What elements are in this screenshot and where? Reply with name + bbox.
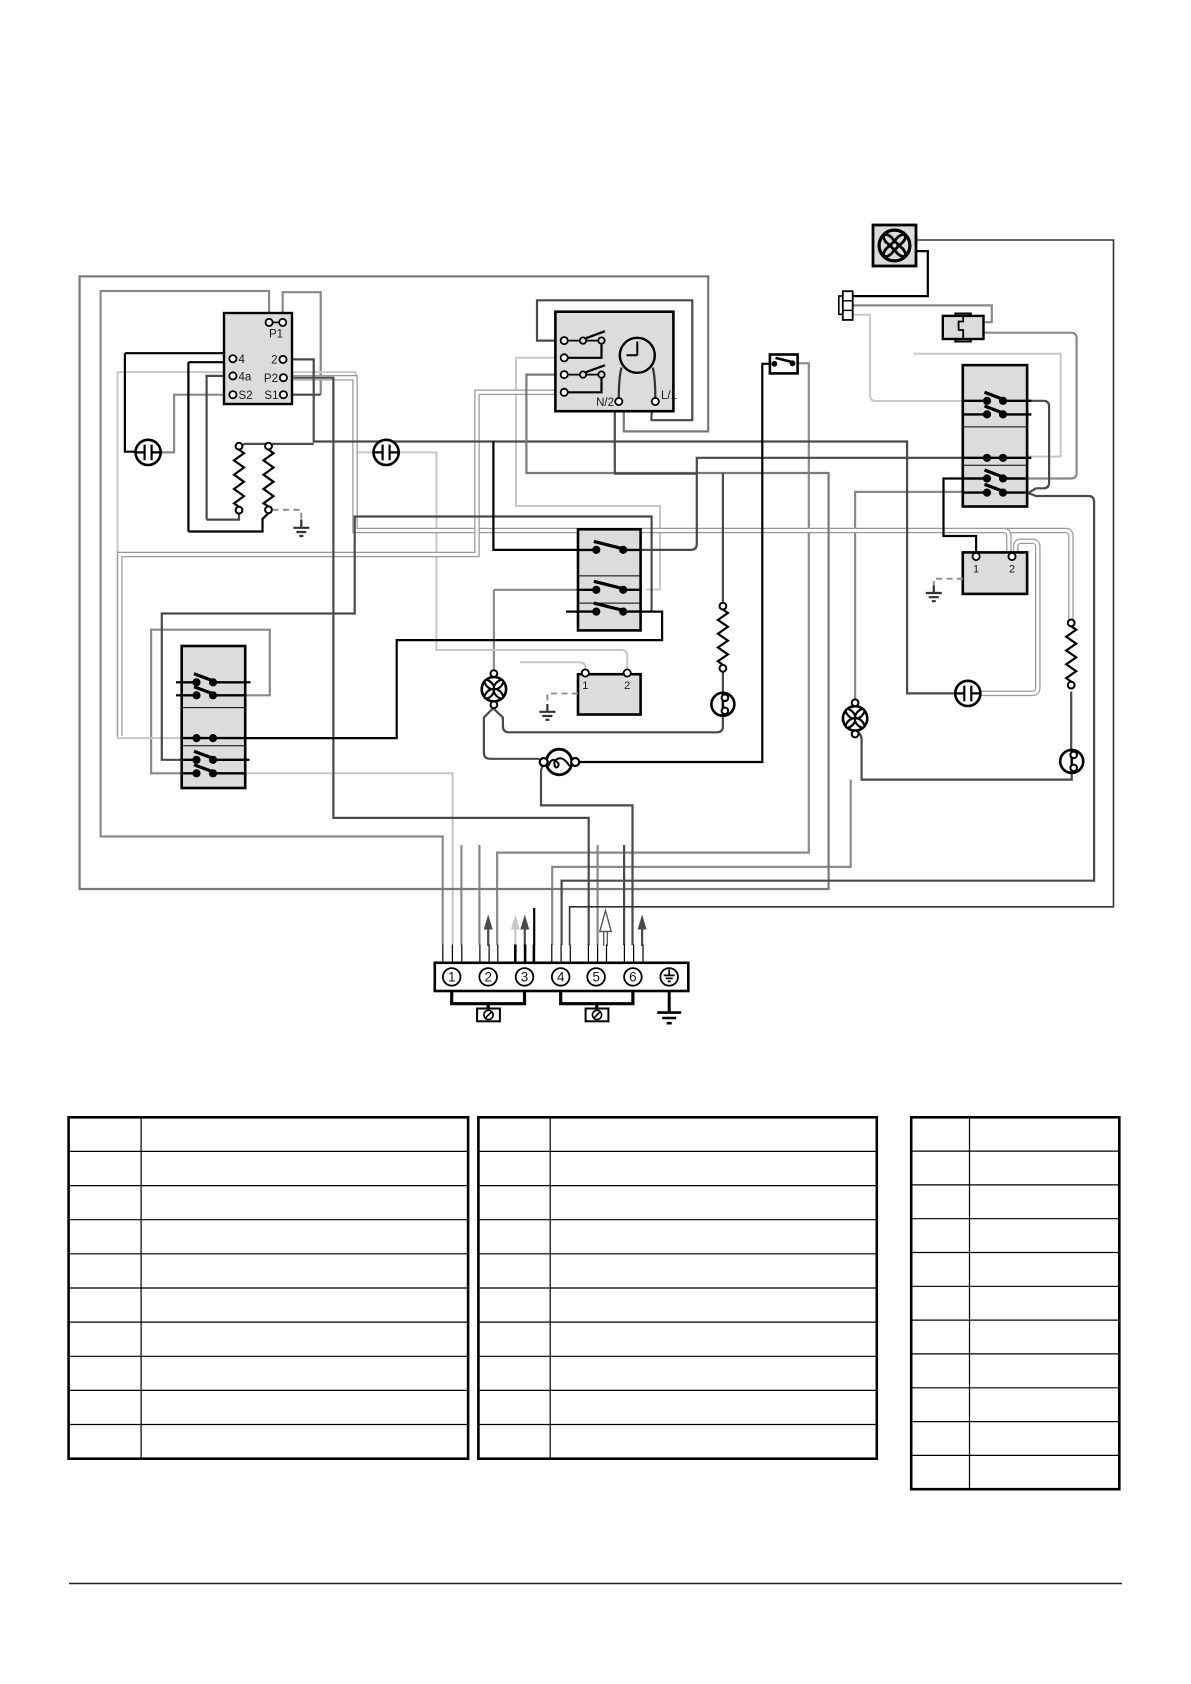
svg-text:N/2: N/2 [596, 397, 614, 409]
svg-text:1: 1 [973, 564, 979, 576]
svg-text:P2: P2 [264, 373, 278, 385]
svg-text:2: 2 [1009, 564, 1015, 576]
svg-text:S1: S1 [264, 390, 278, 402]
svg-text:2: 2 [271, 355, 277, 367]
svg-text:4a: 4a [239, 372, 252, 384]
svg-text:4: 4 [557, 970, 565, 985]
svg-text:S2: S2 [239, 390, 253, 402]
svg-text:2: 2 [484, 970, 492, 985]
svg-text:2: 2 [624, 680, 630, 692]
svg-text:4: 4 [239, 354, 246, 366]
svg-text:L/1: L/1 [661, 390, 677, 402]
svg-text:P1: P1 [269, 329, 283, 341]
svg-text:6: 6 [629, 970, 637, 985]
svg-text:1: 1 [582, 680, 588, 692]
svg-text:3: 3 [521, 970, 529, 985]
svg-text:1: 1 [448, 970, 456, 985]
svg-text:5: 5 [592, 970, 600, 985]
